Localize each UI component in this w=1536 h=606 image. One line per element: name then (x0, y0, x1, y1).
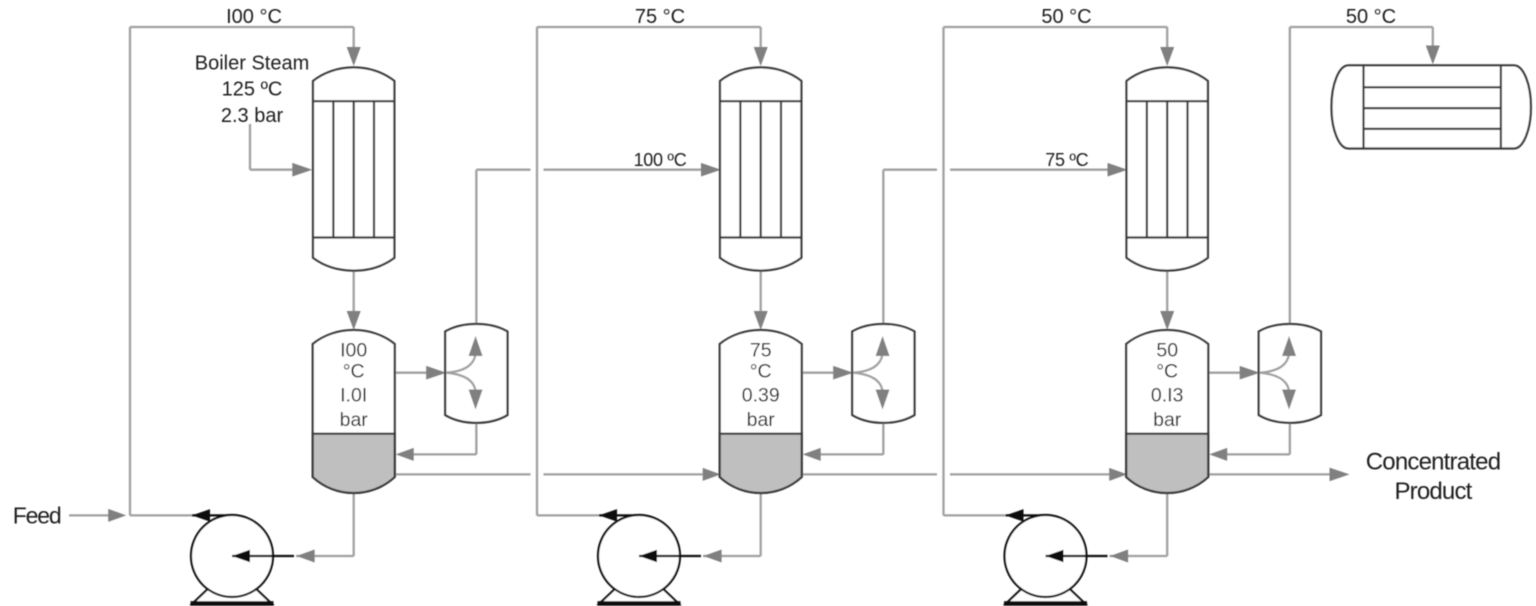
svg-text:I.0I: I.0I (340, 384, 367, 406)
svg-text:75 ºC: 75 ºC (1045, 150, 1088, 170)
svg-text:°C: °C (1156, 361, 1178, 383)
svg-text:125 ºC: 125 ºC (222, 79, 283, 101)
svg-text:bar: bar (1153, 409, 1182, 431)
svg-text:50 °C: 50 °C (1041, 6, 1091, 28)
svg-text:2.3 bar: 2.3 bar (221, 105, 284, 127)
svg-text:I00: I00 (340, 339, 367, 361)
svg-text:75 °C: 75 °C (635, 6, 685, 28)
svg-text:Feed: Feed (13, 503, 61, 529)
svg-text:75: 75 (750, 339, 772, 361)
svg-text:Boiler Steam: Boiler Steam (195, 53, 310, 75)
svg-text:50: 50 (1156, 339, 1178, 361)
svg-text:0.39: 0.39 (742, 384, 780, 406)
svg-text:Product: Product (1394, 478, 1472, 505)
svg-text:0.I3: 0.I3 (1151, 384, 1184, 406)
svg-text:bar: bar (340, 409, 369, 431)
svg-text:bar: bar (747, 409, 776, 431)
svg-text:°C: °C (750, 361, 772, 383)
svg-text:100 ºC: 100 ºC (634, 150, 687, 170)
svg-text:Concentrated: Concentrated (1366, 449, 1501, 476)
svg-text:I00 °C: I00 °C (226, 6, 282, 28)
svg-text:°C: °C (343, 361, 365, 383)
svg-text:50 °C: 50 °C (1346, 6, 1396, 28)
